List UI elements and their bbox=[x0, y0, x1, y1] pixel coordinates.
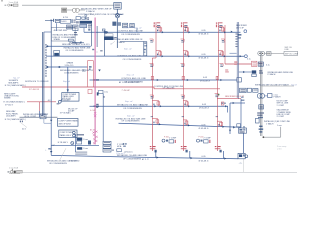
svg-text:1 nos: 1 nos bbox=[277, 125, 282, 127]
svg-text:Ø 05-08 Jt: Ø 05-08 Jt bbox=[199, 107, 209, 110]
svg-text:SPARE: SPARE bbox=[4, 97, 11, 100]
svg-text:INSTALLED OIL AND GAS LINE: INSTALLED OIL AND GAS LINE bbox=[117, 154, 148, 157]
svg-text:P MACH: P MACH bbox=[274, 95, 282, 98]
svg-text:Sep. oil: Sep. oil bbox=[125, 101, 133, 103]
svg-text:100 AMP: 100 AMP bbox=[63, 99, 71, 102]
svg-text:at line: at line bbox=[277, 147, 282, 150]
svg-text:Sep. oil: Sep. oil bbox=[127, 74, 135, 76]
svg-text:OF CONDENSERS: OF CONDENSERS bbox=[121, 121, 140, 123]
svg-text:3 PH 41.5: 3 PH 41.5 bbox=[65, 65, 75, 67]
svg-text:0 4 HP: 0 4 HP bbox=[90, 110, 96, 112]
svg-text:INSTALLED OIL AND GAS LINE: INSTALLED OIL AND GAS LINE bbox=[117, 103, 149, 106]
svg-text:CONDENSERS: CONDENSERS bbox=[64, 73, 79, 75]
svg-text:3' COMP: 3' COMP bbox=[277, 116, 285, 118]
svg-text:INSTALLED SEP OIL LINE OF P MA: INSTALLED SEP OIL LINE OF P MACH bbox=[255, 83, 289, 86]
svg-text:3 P 460 V6: 3 P 460 V6 bbox=[71, 43, 82, 45]
svg-text:OF CONDENSERS: OF CONDENSERS bbox=[121, 34, 140, 36]
svg-text:CONTROL AND OIL LINE: CONTROL AND OIL LINE bbox=[118, 29, 143, 32]
svg-text:AT COND: AT COND bbox=[71, 159, 80, 162]
svg-text:CONTROL OIL AND GAS LINE: CONTROL OIL AND GAS LINE bbox=[117, 55, 147, 58]
svg-text:Sep. oil: Sep. oil bbox=[63, 81, 70, 83]
svg-text:Ø 05-08 Jt: Ø 05-08 Jt bbox=[200, 80, 210, 83]
svg-text:AT 4/0: AT 4/0 bbox=[90, 128, 95, 131]
svg-text:NORTH B M TO CHILLER: NORTH B M TO CHILLER bbox=[25, 81, 49, 83]
svg-text:Sep. oil: Sep. oil bbox=[127, 115, 135, 117]
svg-text:Sep. oil: Sep. oil bbox=[126, 27, 134, 29]
svg-text:4: 4 bbox=[111, 43, 112, 45]
svg-text:SEP OIL COMP: SEP OIL COMP bbox=[285, 54, 299, 56]
svg-text:Sep. oil: Sep. oil bbox=[124, 48, 132, 50]
svg-text:Ø 05-08 Jt: Ø 05-08 Jt bbox=[199, 127, 209, 130]
svg-text:+ | +: + | + bbox=[239, 162, 243, 164]
svg-text:AT CONDENSER UNIT: AT CONDENSER UNIT bbox=[119, 81, 141, 84]
svg-text:4E COMP 480V: 4E COMP 480V bbox=[54, 30, 68, 32]
svg-text:2 nos: 2 nos bbox=[83, 139, 88, 141]
svg-text:COMP POWER: COMP POWER bbox=[60, 132, 74, 134]
svg-text:OF CONDENSERS: OF CONDENSERS bbox=[66, 50, 84, 52]
svg-text:OF CHILLERS: OF CHILLERS bbox=[163, 88, 176, 90]
svg-text:480 V 3P: 480 V 3P bbox=[236, 27, 245, 29]
svg-text:0.1u: 0.1u bbox=[266, 65, 270, 67]
svg-text:CONTROL AND OIL LINE: CONTROL AND OIL LINE bbox=[121, 77, 146, 80]
svg-text:OF CONDENSERS: OF CONDENSERS bbox=[123, 108, 142, 110]
svg-text:0.1u: 0.1u bbox=[140, 105, 144, 107]
svg-text:7' 450 HP: 7' 450 HP bbox=[122, 90, 131, 92]
svg-text:x: x bbox=[97, 52, 98, 54]
svg-text:INSTALLED AND WIRE LINE OF: INSTALLED AND WIRE LINE OF bbox=[81, 8, 112, 11]
svg-text:E.T.B: E.T.B bbox=[63, 17, 68, 19]
svg-text:Ø 05-08 Jt: Ø 05-08 Jt bbox=[199, 32, 209, 35]
svg-text:SPARE: SPARE bbox=[54, 38, 61, 41]
svg-text:INSTALLED AND WIRE LINE OF: INSTALLED AND WIRE LINE OF bbox=[114, 38, 143, 41]
svg-text:E.T.B ( MAIN BOARD ): E.T.B ( MAIN BOARD ) bbox=[5, 118, 27, 121]
svg-text:Typ ref: Typ ref bbox=[291, 85, 297, 87]
svg-text:3 P 36 KAIC: 3 P 36 KAIC bbox=[60, 112, 72, 115]
svg-text:0.1u: 0.1u bbox=[104, 92, 108, 94]
svg-text:E.T.B ( MAIN BOARD ): E.T.B ( MAIN BOARD ) bbox=[5, 84, 27, 87]
svg-text:OF CONDENSERS: OF CONDENSERS bbox=[123, 59, 142, 61]
svg-text:OF M. COMP: OF M. COMP bbox=[24, 116, 37, 118]
svg-text:( Ø 2x10 ): ( Ø 2x10 ) bbox=[124, 152, 133, 154]
svg-text:2' MACH: 2' MACH bbox=[266, 123, 274, 126]
svg-text:MIN AMPS: MIN AMPS bbox=[9, 81, 19, 84]
svg-text:E.T.B ( MAIN BOARD ): E.T.B ( MAIN BOARD ) bbox=[4, 101, 26, 104]
svg-text:Ø 05-08 Jt: Ø 05-08 Jt bbox=[199, 56, 209, 59]
svg-text:1' COMP: 1' COMP bbox=[277, 105, 285, 107]
svg-text:(100 AMP): (100 AMP) bbox=[6, 114, 16, 117]
svg-text:P MACH: P MACH bbox=[117, 41, 125, 44]
svg-text:P. MACH: P. MACH bbox=[86, 10, 95, 13]
svg-text:E.T.B 460 V: E.T.B 460 V bbox=[58, 142, 69, 144]
svg-text:3 P 460 V: 3 P 460 V bbox=[5, 105, 14, 107]
svg-text:OF CONDENSERS: OF CONDENSERS bbox=[49, 163, 67, 165]
svg-text:AT 3' JT: AT 3' JT bbox=[142, 158, 150, 161]
svg-text:1 nos 30 A: 1 nos 30 A bbox=[9, 167, 19, 170]
svg-text:P. MACH: P. MACH bbox=[268, 73, 276, 76]
svg-text:3 P 460 V8: 3 P 460 V8 bbox=[29, 89, 40, 91]
svg-text:2' COMP: 2' COMP bbox=[204, 137, 212, 139]
svg-text:Typ. ref: Typ. ref bbox=[13, 77, 20, 79]
svg-text:PANEL 480 V: PANEL 480 V bbox=[60, 134, 72, 137]
svg-text:OF CONDENSERS: OF CONDENSERS bbox=[123, 159, 142, 161]
svg-text:Ø 05-08 Jt: Ø 05-08 Jt bbox=[199, 160, 209, 163]
svg-text:2 nos: 2 nos bbox=[83, 148, 88, 150]
svg-text:COMP POWER PANEL: COMP POWER PANEL bbox=[58, 120, 78, 123]
svg-text:480V 3P 60HZ: 480V 3P 60HZ bbox=[58, 123, 71, 125]
svg-text:2' COMP: 2' COMP bbox=[169, 137, 177, 139]
svg-text:MCA: MCA bbox=[117, 145, 122, 148]
svg-text:1 nos 3OA: 1 nos 3OA bbox=[9, 1, 19, 4]
svg-text:0.1u: 0.1u bbox=[247, 58, 251, 60]
svg-text:D46O: D46O bbox=[61, 21, 67, 23]
svg-text:Sep. oil: Sep. oil bbox=[134, 27, 142, 29]
